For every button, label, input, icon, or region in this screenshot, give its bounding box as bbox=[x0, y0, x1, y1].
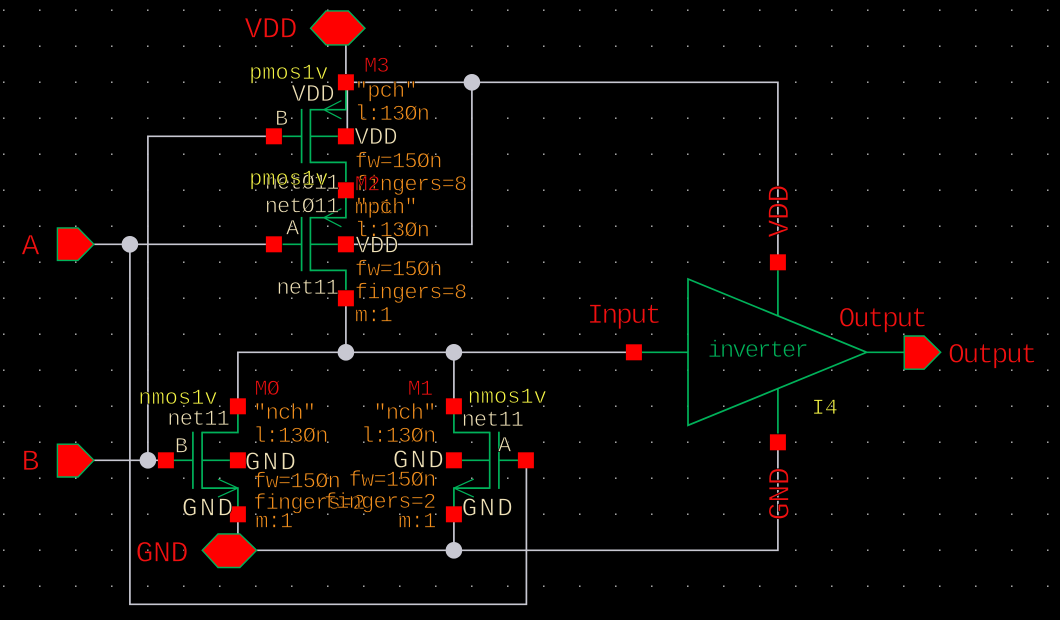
svg-text:B: B bbox=[275, 107, 288, 132]
power symbol VDD (hexagon) bbox=[311, 11, 366, 45]
svg-text:pmos1v: pmos1v bbox=[249, 167, 328, 192]
transistor M3 (pmos1v, gate B) bbox=[266, 74, 354, 198]
svg-text:GND: GND bbox=[182, 494, 235, 524]
pin Output (output pin) bbox=[904, 336, 941, 369]
svg-text:net11: net11 bbox=[167, 407, 229, 432]
svg-text:l:13Øn: l:13Øn bbox=[355, 218, 429, 243]
wire: VDD net (hexagon stem, top rail, drop to inverter VDD pin) bbox=[346, 45, 778, 255]
junction: net11 at M1 drain bbox=[446, 344, 463, 361]
svg-text:B: B bbox=[22, 446, 40, 480]
wire: net11 bus (M2 drain to M0/M1 drains and inverter input) bbox=[238, 306, 634, 406]
svg-text:A: A bbox=[22, 231, 40, 265]
pin B (input pin) bbox=[57, 444, 94, 477]
junction: net A at input bbox=[122, 236, 139, 253]
svg-text:GND: GND bbox=[136, 538, 189, 572]
svg-text:net11: net11 bbox=[462, 408, 524, 433]
svg-text:B: B bbox=[175, 435, 188, 460]
svg-text:netØ11: netØ11 bbox=[265, 195, 340, 220]
pin A (input pin) bbox=[57, 228, 94, 261]
svg-text:MØ: MØ bbox=[254, 377, 279, 402]
op-amp style inverter symbol I4 bbox=[642, 270, 904, 433]
wire: net B from pin to M0 gate and M3 gate bbox=[94, 136, 266, 460]
labels M0 properties bbox=[253, 401, 365, 535]
svg-text:l:13Øn: l:13Øn bbox=[253, 424, 327, 449]
svg-text:nmos1v: nmos1v bbox=[468, 385, 547, 410]
svg-text:m:1: m:1 bbox=[398, 510, 436, 535]
svg-text:inverter: inverter bbox=[708, 338, 808, 365]
svg-text:VDD: VDD bbox=[292, 82, 335, 109]
svg-text:"nch": "nch" bbox=[373, 401, 435, 426]
svg-text:fingers=8: fingers=8 bbox=[355, 280, 467, 305]
transistor M1 (nmos1v, gate A, mirrored) bbox=[446, 398, 534, 522]
transistor M2 (pmos1v, gate A) bbox=[266, 198, 354, 306]
junction: net B at input bbox=[140, 452, 157, 469]
svg-text:m:1: m:1 bbox=[355, 303, 393, 328]
svg-text:M2: M2 bbox=[355, 172, 380, 197]
svg-text:Output: Output bbox=[839, 305, 926, 336]
wire: net A from pin to M2 gate and M1 gate bbox=[94, 244, 527, 604]
svg-text:fw=15Øn: fw=15Øn bbox=[355, 257, 442, 282]
labels M1 properties (right aligned) bbox=[324, 401, 436, 535]
wire: GND rail bbox=[238, 450, 778, 551]
svg-text:VDD: VDD bbox=[355, 125, 398, 152]
svg-text:"pch": "pch" bbox=[355, 79, 417, 104]
svg-text:Output: Output bbox=[948, 341, 1035, 372]
svg-text:fw=15Øn: fw=15Øn bbox=[355, 149, 442, 174]
labels M2 properties bbox=[355, 195, 467, 328]
svg-text:m:1: m:1 bbox=[255, 510, 293, 535]
svg-text:VDD: VDD bbox=[245, 14, 298, 48]
junction: GND rail at M1 source bbox=[446, 542, 463, 559]
svg-text:GND: GND bbox=[462, 494, 515, 524]
svg-text:M1: M1 bbox=[408, 377, 433, 402]
transistor M0 (nmos1v, gate B) bbox=[158, 398, 246, 522]
svg-text:I4: I4 bbox=[812, 396, 838, 421]
svg-text:VDD: VDD bbox=[764, 185, 798, 238]
svg-text:l:13Øn: l:13Øn bbox=[355, 102, 429, 127]
svg-text:"nch": "nch" bbox=[253, 401, 315, 426]
junction: VDD rail node bbox=[464, 74, 481, 91]
svg-text:"pch": "pch" bbox=[355, 195, 417, 220]
svg-text:A: A bbox=[498, 434, 512, 459]
svg-text:GND: GND bbox=[765, 468, 799, 521]
svg-text:A: A bbox=[286, 217, 300, 242]
svg-text:Input: Input bbox=[587, 301, 660, 332]
svg-text:l:13Øn: l:13Øn bbox=[361, 424, 435, 449]
labels M3 properties bbox=[355, 79, 467, 220]
ground symbol GND (hexagon) bbox=[202, 534, 257, 568]
svg-text:net11: net11 bbox=[277, 276, 339, 301]
svg-text:M3: M3 bbox=[364, 54, 389, 79]
junction: net11 at M2 drain bbox=[338, 344, 355, 361]
